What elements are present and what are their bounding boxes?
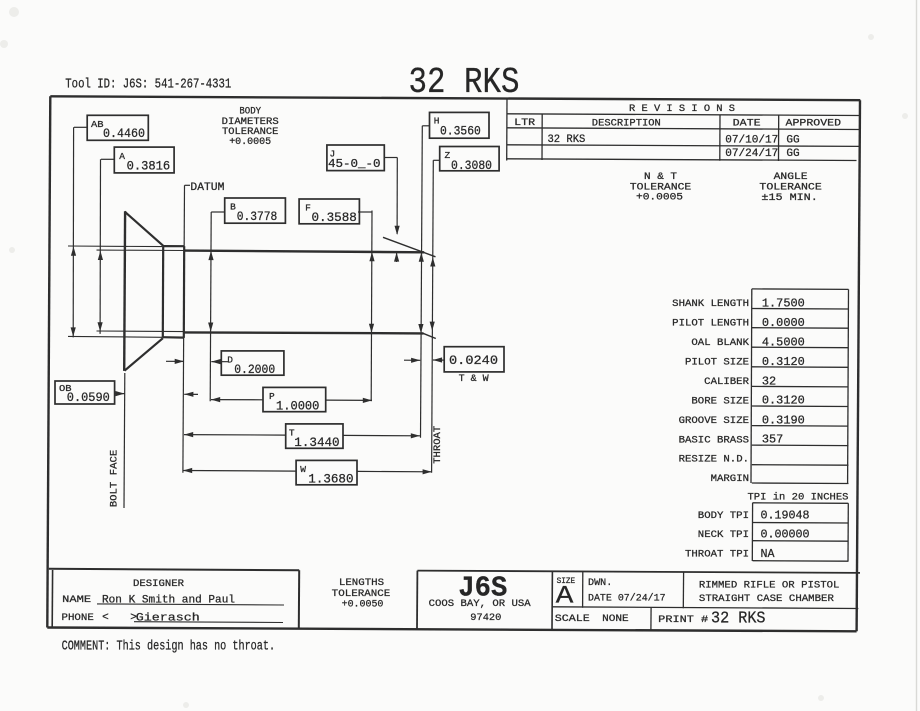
svg-text:32: 32: [762, 374, 776, 388]
svg-text:0.0240: 0.0240: [449, 353, 498, 368]
svg-text:45-0_-0: 45-0_-0: [328, 158, 381, 171]
svg-text:32 RKS: 32 RKS: [711, 610, 766, 629]
revisions table: [506, 98, 508, 161]
Z arrow down: [430, 322, 435, 331]
F arrow down: [369, 324, 374, 333]
J second arrow up at bore line: [396, 252, 398, 262]
svg-text:DATUM: DATUM: [190, 182, 224, 194]
svg-text:DWN.: DWN.: [588, 577, 612, 589]
vertical line at F / P-right (x=372): [370, 211, 373, 402]
svg-text:THROAT TPI: THROAT TPI: [685, 549, 749, 561]
svg-text:4.5000: 4.5000: [762, 335, 805, 349]
B arrow up: [208, 251, 213, 260]
svg-text:0.3120: 0.3120: [762, 355, 805, 369]
A arrow down: [98, 322, 103, 331]
svg-text:SCALE: SCALE: [555, 613, 590, 625]
cone bottom diagonal: [125, 338, 163, 371]
svg-text:Gierasch: Gierasch: [136, 612, 200, 624]
bolt face vertical line: [123, 373, 126, 508]
svg-text:32 RKS: 32 RKS: [409, 62, 520, 103]
svg-text:STRAIGHT CASE CHAMBER: STRAIGHT CASE CHAMBER: [699, 593, 835, 605]
svg-text:PHONE: PHONE: [62, 612, 94, 624]
svg-text:+0.0005: +0.0005: [636, 193, 683, 204]
scan edge artifact: [916, 0, 918, 711]
svg-text:TOLERANCE: TOLERANCE: [759, 183, 821, 194]
svg-text:1.3680: 1.3680: [308, 471, 353, 486]
B leader: [211, 211, 225, 213]
AB arrow up: [71, 247, 76, 256]
svg-text:Z: Z: [445, 150, 451, 161]
svg-text:Tool ID: J6S: 541-267-4331: Tool ID: J6S: 541-267-4331: [65, 77, 231, 93]
svg-text:AB: AB: [91, 119, 104, 130]
spec table: [752, 288, 849, 291]
extension line rim top (AB): [68, 245, 162, 248]
svg-text:D: D: [227, 354, 233, 365]
A leader: [101, 158, 114, 160]
svg-text:97420: 97420: [470, 612, 501, 624]
chamber top line: [184, 251, 425, 253]
svg-text:W: W: [300, 464, 306, 475]
svg-text:F: F: [305, 203, 311, 214]
svg-text:LTR: LTR: [514, 117, 536, 129]
svg-text:BODY TPI: BODY TPI: [698, 510, 749, 522]
F leader: [358, 211, 372, 213]
svg-text:DESIGNER: DESIGNER: [133, 579, 184, 590]
svg-text:0.3190: 0.3190: [762, 413, 805, 427]
svg-text:0.0000: 0.0000: [762, 316, 805, 330]
dim box H 0.3560: [430, 112, 490, 138]
dim box F 0.3588: [299, 199, 359, 224]
dim box A 0.3816: [114, 147, 174, 173]
svg-text:PILOT LENGTH: PILOT LENGTH: [672, 318, 749, 330]
size / dwn cells: [582, 572, 584, 608]
svg-text:RIMMED RIFLE OR PISTOL: RIMMED RIFLE OR PISTOL: [699, 580, 840, 592]
AB arrow down: [71, 327, 76, 336]
svg-text:0.3560: 0.3560: [440, 123, 481, 138]
svg-text:R E V I S I O N S: R E V I S I O N S: [629, 103, 735, 115]
svg-text:A: A: [119, 151, 125, 162]
H arrow down: [418, 324, 423, 333]
H arrow up: [419, 253, 424, 262]
svg-text:NONE: NONE: [602, 613, 629, 625]
J leader arrow down: [395, 226, 400, 235]
svg-text:OAL BLANK: OAL BLANK: [691, 337, 749, 349]
svg-text:<: <: [102, 612, 109, 624]
svg-text:NAME: NAME: [62, 594, 91, 606]
svg-text:SHANK LENGTH: SHANK LENGTH: [672, 298, 749, 310]
svg-text:PILOT SIZE: PILOT SIZE: [685, 356, 749, 368]
svg-text:PRINT #: PRINT #: [658, 614, 708, 626]
svg-text:CALIBER: CALIBER: [704, 376, 750, 388]
cone left edge (bolt face end): [123, 211, 126, 371]
svg-text:+0.0005: +0.0005: [229, 137, 271, 148]
dim 0.0240 T&W outside arrows: [404, 359, 420, 361]
svg-text:BORE SIZE: BORE SIZE: [691, 395, 749, 407]
svg-text:N & T: N & T: [644, 172, 677, 183]
dim box OB 0.0590: [55, 381, 115, 404]
svg-text:NA: NA: [761, 547, 776, 561]
vertical line at B / P-left (x=211): [210, 212, 211, 401]
dim box AB 0.4460: [87, 115, 148, 140]
dim W 1.3680: [183, 470, 296, 473]
svg-text:07/10/17: 07/10/17: [725, 135, 778, 147]
svg-text:0.0590: 0.0590: [67, 390, 110, 405]
svg-text:0.3778: 0.3778: [237, 209, 278, 224]
svg-text:0.3080: 0.3080: [451, 158, 492, 173]
svg-text:DATE: DATE: [733, 118, 761, 130]
svg-text:0.3120: 0.3120: [762, 394, 805, 408]
Z leader: [433, 159, 439, 161]
svg-text:1.0000: 1.0000: [276, 398, 319, 413]
svg-text:GG: GG: [786, 134, 799, 146]
dim box P 1.0000: [263, 387, 326, 411]
svg-text:DATE 07/24/17: DATE 07/24/17: [588, 593, 666, 605]
svg-text:DESCRIPTION: DESCRIPTION: [592, 118, 661, 130]
svg-text:0.19048: 0.19048: [761, 508, 810, 522]
AB leader: [74, 126, 87, 128]
dim box B 0.3778: [225, 198, 286, 223]
svg-text:COMMENT: This design has no th: COMMENT: This design has no throat.: [62, 638, 276, 654]
dim box Z 0.3080: [440, 147, 499, 171]
svg-text:0.00000: 0.00000: [761, 528, 810, 542]
svg-text:1.7500: 1.7500: [762, 296, 805, 310]
H leader: [422, 125, 429, 127]
svg-text:H: H: [434, 115, 440, 126]
dim T 1.3440: [184, 434, 286, 437]
designer box: [49, 569, 299, 570]
svg-text:+0.0050: +0.0050: [342, 598, 384, 610]
main border frame: [50, 96, 860, 100]
vertical line Z dim / W extension: [432, 160, 434, 473]
B arrow down: [208, 323, 213, 332]
Z arrow up: [430, 257, 435, 266]
svg-text:BASIC BRASS: BASIC BRASS: [679, 434, 749, 446]
svg-text:TPI in 20 INCHES: TPI in 20 INCHES: [748, 492, 849, 504]
svg-text:B: B: [230, 202, 236, 213]
svg-text:±15 MIN.: ±15 MIN.: [761, 193, 817, 204]
datum vertical line: [183, 185, 185, 473]
svg-text:357: 357: [762, 433, 783, 447]
svg-text:APPROVED: APPROVED: [786, 118, 842, 130]
F arrow up: [369, 252, 374, 261]
dim box T 1.3440: [286, 424, 343, 448]
dim OB 0.0590 outside arrows: [115, 393, 125, 395]
svg-text:A: A: [556, 581, 574, 610]
chamber bottom line: [184, 332, 424, 333]
svg-text:07/24/17: 07/24/17: [725, 148, 778, 160]
svg-text:0.4460: 0.4460: [103, 126, 145, 141]
svg-text:GG: GG: [786, 148, 799, 160]
extension line bore bottom (A): [97, 330, 185, 333]
extension line bore top (A): [97, 249, 185, 251]
J6S company box: [416, 571, 418, 630]
svg-text:COOS BAY, OR USA: COOS BAY, OR USA: [429, 598, 532, 610]
svg-text:THROAT: THROAT: [432, 426, 444, 464]
svg-text:GROOVE SIZE: GROOVE SIZE: [679, 415, 749, 427]
svg-text:0.3588: 0.3588: [312, 210, 357, 225]
svg-text:T & W: T & W: [459, 374, 489, 385]
rim box: [162, 246, 165, 338]
dim D 0.2000 outside arrows: [166, 360, 184, 362]
A arrow up: [98, 251, 103, 260]
svg-text:0.2000: 0.2000: [234, 362, 275, 377]
mouth chamfer top diagonal: [383, 237, 436, 256]
svg-text:RESIZE N.D.: RESIZE N.D.: [679, 454, 749, 466]
svg-text:P: P: [269, 391, 275, 402]
svg-text:32 RKS: 32 RKS: [548, 134, 586, 146]
mouth chamfer bottom diagonal: [423, 333, 436, 338]
dim P 1.0000: [211, 399, 263, 401]
svg-text:ANGLE: ANGLE: [774, 172, 808, 183]
dim box W 1.3680: [296, 460, 357, 484]
vertical line H dim / T extension: [421, 126, 423, 438]
svg-text:0.3816: 0.3816: [127, 159, 171, 174]
J leader: [384, 157, 397, 159]
svg-text:NECK TPI: NECK TPI: [698, 529, 749, 541]
svg-text:1.3440: 1.3440: [294, 435, 339, 450]
cone top diagonal: [125, 212, 164, 246]
svg-text:MARGIN: MARGIN: [711, 473, 749, 485]
dim box 0.0240: [444, 347, 504, 372]
dim box J 45-0_-0: [327, 145, 384, 171]
svg-text:BOLT FACE: BOLT FACE: [109, 450, 121, 508]
extension line rim bottom (AB): [68, 335, 162, 338]
dim box D 0.2000: [221, 351, 284, 375]
